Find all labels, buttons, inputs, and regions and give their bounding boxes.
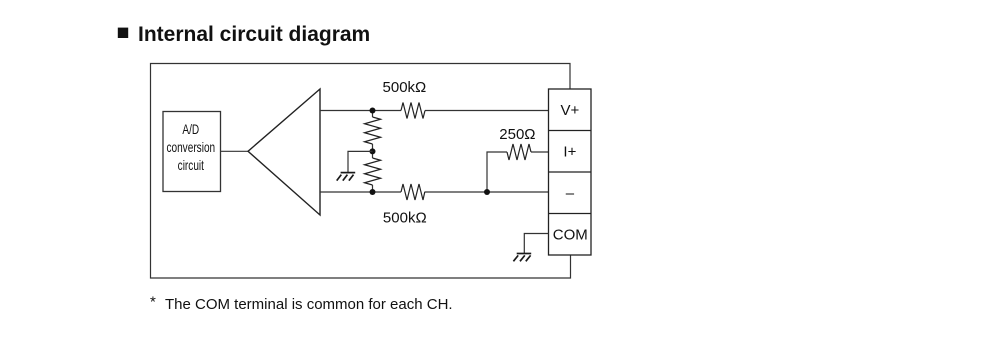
svg-text:I+: I+ (563, 144, 576, 161)
wire I+ line with corner down to minus line (487, 152, 549, 192)
svg-text:conversion: conversion (166, 139, 215, 155)
divider resistor chain: wire top segment (372, 111, 374, 118)
svg-text:A/D: A/D (182, 121, 199, 137)
terminal divider 1 (549, 130, 592, 132)
terminal block outline (549, 89, 592, 255)
wire COM to ground (524, 234, 548, 254)
svg-text:500kΩ: 500kΩ (383, 79, 427, 96)
junction node minus line (484, 189, 490, 195)
junction node top (370, 108, 376, 114)
op-amp triangle (248, 89, 320, 215)
resistor 500k-ohm top (401, 103, 425, 119)
wire between vertical resistors (372, 144, 374, 158)
wire bottom (minus line) (320, 191, 401, 193)
title bullet square (118, 28, 128, 38)
resistor 250-ohm (507, 144, 531, 160)
svg-text:V+: V+ (561, 102, 580, 119)
wire middle node to ground (348, 151, 373, 172)
resistor vertical upper (365, 117, 381, 144)
terminal divider 3 (549, 213, 592, 215)
svg-text:500kΩ: 500kΩ (383, 209, 427, 226)
terminal divider 2 (549, 171, 592, 173)
svg-text:The COM terminal is common for: The COM terminal is common for each CH. (165, 296, 453, 313)
junction node middle (370, 148, 376, 154)
svg-text:250Ω: 250Ω (499, 126, 535, 143)
A/D conversion circuit box (163, 112, 221, 192)
svg-text:Internal circuit diagram: Internal circuit diagram (138, 23, 370, 46)
svg-text:circuit: circuit (178, 157, 205, 173)
wire A/D box to op-amp apex (221, 150, 249, 152)
svg-text:*: * (150, 294, 156, 311)
junction node bottom (370, 189, 376, 195)
wire lower stub to minus line (372, 185, 374, 192)
svg-text:–: – (566, 185, 575, 202)
svg-text:COM: COM (553, 226, 588, 243)
resistor vertical lower (365, 158, 381, 185)
resistor 500k-ohm bottom (401, 184, 425, 200)
ground (COM) (513, 254, 531, 262)
enclosure border (151, 64, 571, 279)
wire top (V+ line) (320, 110, 401, 112)
ground (amp reference) (337, 173, 356, 181)
